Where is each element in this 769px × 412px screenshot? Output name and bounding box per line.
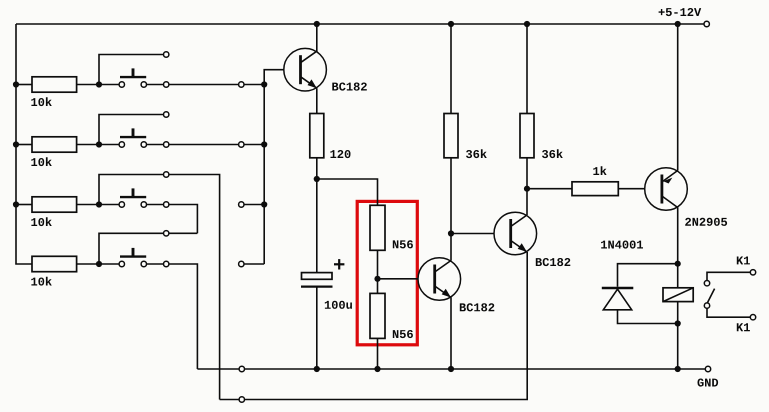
resistor R1 10k (32, 77, 77, 92)
label BC182 Q2 (460, 303, 495, 311)
switch S2 pushbutton row2 (120, 136, 146, 138)
wire Q2 collector (450, 234, 452, 261)
switch S1 pushbutton row1 (120, 76, 146, 78)
wire Q1 collector (316, 24, 318, 52)
wire row3 bus stub (244, 204, 264, 206)
wire Q1 emitter (316, 88, 318, 113)
wire 36k2 bottom lead (526, 158, 528, 189)
label 36k first (466, 149, 487, 158)
node row2 bypass circle (239, 142, 244, 147)
transistor Q4 2N2905 (645, 168, 688, 211)
wire diode bottom link (618, 310, 678, 324)
resistor N56 lower (370, 293, 385, 338)
node top rail junction Q1 collector (314, 21, 320, 27)
relay coil K1 (663, 288, 693, 302)
transistor Q2 BC182 (418, 258, 461, 301)
wire row3 jog down to NC4 wire (169, 205, 198, 234)
wire Q4 collector down (677, 208, 679, 264)
node 36k2 junction (524, 186, 530, 192)
label K1 top (737, 257, 750, 265)
wire 1k to Q4 base (618, 188, 644, 190)
node row4 bypass circle (239, 261, 244, 266)
label 1k (593, 166, 606, 175)
wire NC3 to bottom bus2 (169, 175, 220, 400)
ground rail bottom (197, 368, 705, 370)
resistor 36k second (520, 114, 534, 158)
wire left vertical rail (15, 24, 17, 264)
resistor 120 (310, 114, 324, 158)
node top rail junction 36k2 (524, 21, 530, 27)
wire cap bottom lead (316, 287, 318, 369)
switch S4 pushbutton row4 (120, 255, 146, 257)
switch arm K1 (707, 289, 714, 303)
wire diode top link (618, 264, 678, 287)
wire row3 NC branch (99, 175, 163, 205)
label BC182 Q1 (332, 83, 367, 91)
node Q2 emitter ground junction (448, 366, 454, 372)
node row4 left junction (96, 261, 102, 267)
wire row4 resistor to junction (77, 263, 99, 265)
wire relay coil bottom lead (677, 302, 679, 324)
node row1 right contact circle (164, 82, 169, 87)
label 36k second (542, 149, 563, 158)
wire 36k1 top lead (450, 24, 452, 114)
wire Q2 emitter (450, 298, 452, 370)
label 10k row1 (31, 97, 52, 106)
wire bus2 bottom (220, 252, 528, 400)
label N56 lower (393, 330, 413, 338)
node row3 left junction (96, 201, 102, 207)
node K1 bottom terminal (750, 315, 755, 320)
node left rail row1 junction (13, 81, 19, 87)
node top rail junction Q4 emitter (675, 21, 681, 27)
wire K1 contact top terminal link (707, 272, 750, 280)
node row3 bypass circle (239, 202, 244, 207)
label 120 (330, 150, 350, 158)
wire row3 resistor to junction (77, 204, 99, 206)
node row2 right contact circle (164, 142, 169, 147)
node row3 NC contact circle (164, 172, 169, 177)
wire cap top lead (316, 179, 318, 273)
node row2 bus junction (261, 141, 267, 147)
wire row4 left corner (16, 263, 32, 265)
node row2 NC contact circle (164, 112, 169, 117)
label 2N2905 (685, 218, 727, 226)
wire row2 resistor to junction (77, 144, 99, 146)
wire divider junction to Q2 base (378, 278, 419, 280)
node row4 right contact circle (164, 261, 169, 266)
node row4 NC contact circle (164, 231, 169, 236)
wire row3 left (16, 204, 32, 206)
wire row4 down to ground rail (169, 264, 198, 369)
wire Q3 base (451, 233, 494, 235)
resistor R4 10k (32, 256, 77, 271)
node row1 NC contact circle (164, 52, 169, 57)
wire junction to 1k (527, 188, 572, 190)
node row3 bus junction (261, 201, 267, 207)
wire row1 resistor to junction (77, 84, 99, 86)
wire NC4 right segment (169, 232, 198, 234)
capacitor C1 100u (301, 259, 344, 287)
resistor 36k first (444, 114, 458, 158)
highlight red box (357, 201, 417, 344)
node top rail junction 36k1 (448, 21, 454, 27)
label +5-12V (659, 8, 702, 16)
label 1N4001 (601, 241, 643, 249)
resistor N56 upper (370, 205, 385, 250)
wire K1 contact bottom terminal link (707, 308, 750, 317)
node ground rail inline circle (239, 366, 244, 371)
node divider junction (374, 276, 380, 282)
node cap ground junction (314, 366, 320, 372)
node row2 left junction (96, 141, 102, 147)
resistor R2 10k (32, 137, 77, 152)
wire Q3 collector (526, 189, 528, 215)
switch S3 pushbutton row3 (120, 196, 146, 198)
wire Q4 emitter top (677, 24, 679, 171)
node left rail row3 junction (13, 201, 19, 207)
wire relay coil top lead (677, 264, 679, 288)
node K1 lower contact (704, 303, 709, 308)
wire divider middle (377, 250, 379, 293)
node bus2 inline circle (239, 397, 244, 402)
node K1 upper contact (704, 281, 709, 286)
wire junction to divider top (317, 179, 378, 205)
node relay ground junction (675, 366, 681, 372)
label K1 bottom (737, 323, 750, 331)
node junction below 120 (314, 176, 320, 182)
wire divider bottom lead (377, 338, 379, 369)
label 100u (325, 301, 352, 309)
node relay bottom junction (675, 320, 681, 326)
node row1 bypass circle (239, 82, 244, 87)
node divider ground junction (374, 366, 380, 372)
label BC182 Q3 (536, 258, 571, 266)
wire row1 left (16, 84, 32, 86)
label N56 upper (393, 240, 413, 248)
wire 36k2 top lead (526, 24, 528, 114)
wire right bus vertical (264, 70, 284, 264)
label 10k row4 (31, 277, 52, 286)
wire row2 NC branch (99, 115, 163, 145)
node relay top junction (675, 261, 681, 267)
wire top supply rail (16, 23, 704, 25)
wire row4 bus stub (245, 263, 265, 265)
node supply terminal circle (704, 21, 709, 26)
wire row1 NC branch (99, 55, 163, 85)
resistor 1k (572, 182, 618, 196)
resistor R3 10k (32, 197, 77, 212)
label 10k row3 (31, 217, 52, 226)
wire row2 to bus (169, 144, 264, 146)
node K1 top terminal (750, 270, 755, 275)
wire 36k1 bottom lead (450, 158, 452, 234)
node GND terminal circle (705, 366, 710, 371)
label GND (698, 379, 719, 387)
wire row1 to bus (169, 84, 264, 86)
node row3 right contact circle (164, 202, 169, 207)
node Q3 base junction (448, 230, 454, 236)
node row1 bus junction (261, 81, 267, 87)
transistor Q1 BC182 (284, 48, 327, 91)
wire row2 left (16, 144, 32, 146)
label 10k row2 (31, 157, 52, 166)
transistor Q3 BC182 (494, 212, 537, 255)
node left rail row2 junction (13, 141, 19, 147)
wire relay to ground rail (677, 324, 679, 370)
diode D1 1N4001 (602, 288, 634, 310)
node row1 left junction (96, 81, 102, 87)
wire 120 to junction (316, 158, 318, 179)
wire row4 NC branch (99, 233, 163, 264)
